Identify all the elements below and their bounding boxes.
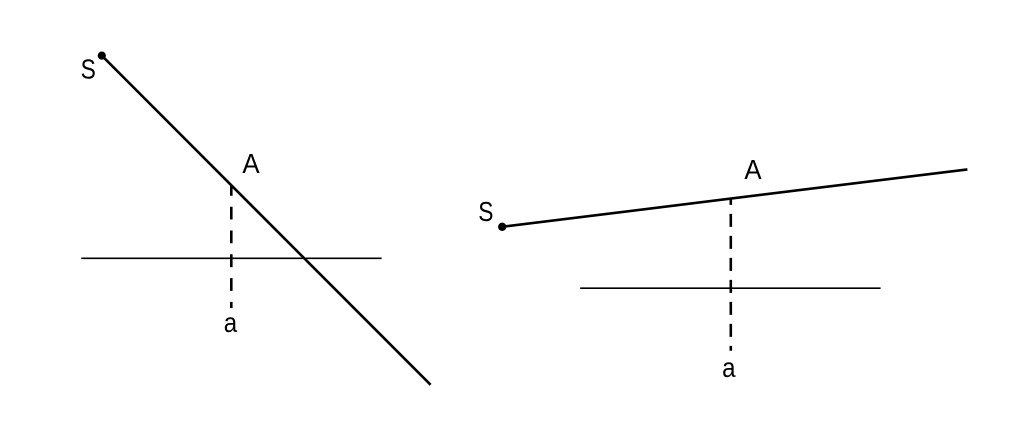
ray from S through A (right figure) xyxy=(502,169,967,226)
svg-text:a: a xyxy=(722,352,736,383)
dashed normal line a (right figure) xyxy=(729,198,732,351)
horizontal surface line (right figure) xyxy=(580,287,880,289)
svg-text:a: a xyxy=(224,307,238,338)
svg-text:S: S xyxy=(81,53,96,84)
svg-text:S: S xyxy=(478,196,493,227)
ray from S through A (left figure) xyxy=(102,56,431,385)
point S (right figure) xyxy=(498,223,506,231)
point S (left figure) xyxy=(98,52,106,60)
dashed normal line a (left figure) xyxy=(230,186,233,308)
svg-text:A: A xyxy=(242,148,260,179)
svg-text:A: A xyxy=(744,154,762,185)
horizontal surface line (left figure) xyxy=(81,257,381,259)
